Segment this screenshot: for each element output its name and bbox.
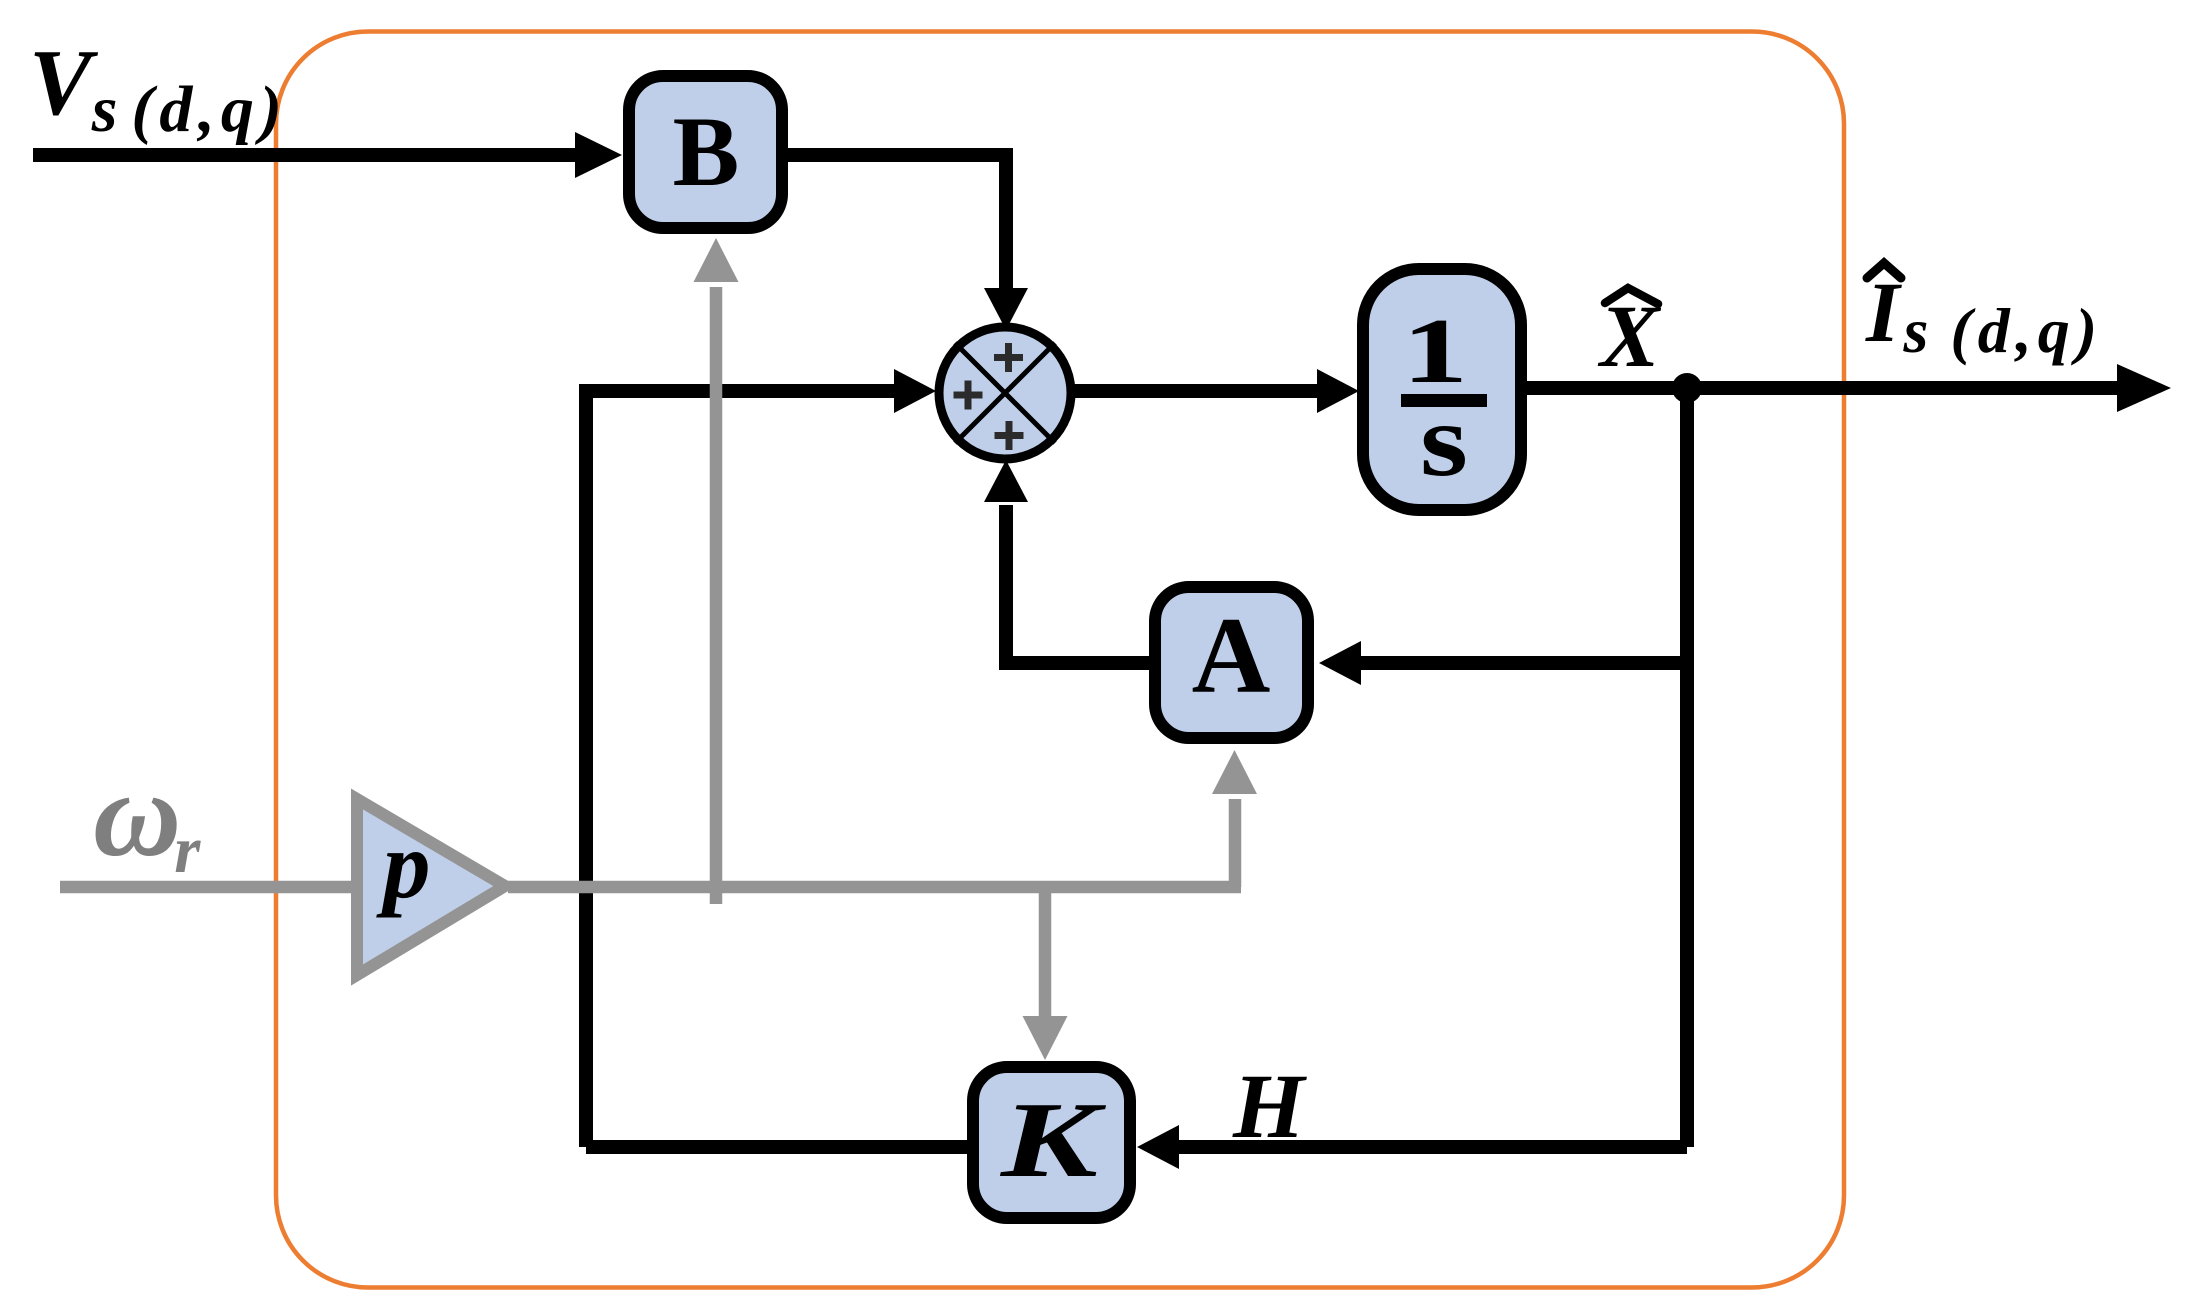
wire omega_r input (gray): [60, 881, 362, 894]
wire K output to left vertical: [586, 1140, 967, 1154]
block A: [1155, 587, 1308, 738]
wire Vs input to B: [33, 132, 622, 178]
wire feedback into K (H line): [1137, 1125, 1687, 1169]
wire gray branch up into A: [1212, 750, 1257, 887]
block K: [973, 1067, 1130, 1218]
observer boundary box (orange rounded frame): [276, 32, 1844, 1288]
gain p triangle: [357, 799, 505, 975]
label Xhat: [1597, 288, 1662, 386]
wire integrator output to Is output arrow: [1525, 364, 2171, 412]
svg-text:B: B: [673, 96, 740, 207]
svg-text:s: s: [1420, 383, 1468, 498]
wire K feedback up-left vertical and into summing junction left: [586, 369, 936, 1147]
summing junction: [939, 327, 1071, 459]
label Ihat s(d,q): [1865, 263, 2103, 366]
block B: [629, 76, 782, 228]
svg-text:K: K: [1000, 1081, 1108, 1200]
svg-text:H: H: [1232, 1055, 1307, 1157]
node Xhat branch dot: [1672, 373, 1702, 403]
block 1/s integrator: [1363, 269, 1521, 510]
wire gray branch down into K: [1023, 887, 1068, 1060]
wire summing junction to integrator 1/s: [1074, 369, 1359, 413]
wire A output to summing junction bottom: [984, 460, 1149, 663]
svg-text:p: p: [376, 812, 431, 918]
wire gray branch up into B: [694, 238, 739, 904]
wire feedback into A: [1319, 641, 1687, 685]
svg-text:A: A: [1192, 595, 1271, 716]
wire node down right-side feedback vertical: [1680, 388, 1694, 1147]
wire gain p output main gray line: [508, 881, 1241, 894]
wire B output to summing junction top: [788, 155, 1028, 330]
